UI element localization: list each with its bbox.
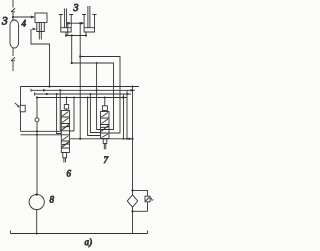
wire: H3 right then down to valve 7 right port [72, 63, 114, 130]
wire: valve 6 right port to riser [70, 98, 75, 132]
svg-text:3: 3 [73, 3, 79, 14]
wire: bottom break line below accumulator [11, 48, 15, 71]
pressure switch box [20, 105, 25, 112]
node: drop junction on upper tie [79, 22, 81, 24]
wire: bracket from L3 down around to valve 6 right [57, 94, 62, 134]
left edge of unit / pressure switch line [20, 87, 22, 106]
valve 6 body [61, 111, 69, 153]
arrowhead on L2 right [131, 89, 135, 92]
node: pump line joins L4 [36, 96, 38, 98]
wire: L3 corner down to drain line [123, 94, 125, 139]
node: drain joins main return [131, 138, 133, 140]
valve 6 pilot cap [64, 105, 68, 110]
node: branch H4 [79, 55, 81, 57]
wire: long drain line from valve 6 to main return [70, 138, 133, 140]
tank line bottom [11, 231, 148, 234]
gauge circle on pump line [35, 118, 39, 122]
arrowhead on L4 right [123, 96, 127, 99]
node: H3 branch [71, 62, 73, 64]
relief valve branch [133, 190, 148, 196]
arrowhead on drain line [129, 138, 133, 141]
arrowhead on L3 right [127, 93, 131, 96]
svg-text:7: 7 [104, 155, 109, 165]
svg-text:6: 6 [67, 169, 72, 179]
wire: V1 from lower tie [71, 36, 73, 64]
pump suction vertical with gauge circle [36, 98, 38, 195]
svg-text:а): а) [85, 237, 93, 247]
wire: to regulator 4 [13, 16, 32, 18]
arrowhead on L2 [43, 89, 47, 92]
bus line L4 [37, 97, 127, 99]
wire: regulator 4 to manifold [31, 29, 50, 87]
wire: between cylinders upper [68, 22, 83, 24]
arrowhead on L3 [46, 93, 50, 96]
arrowhead into regulator 4 lower port [33, 28, 37, 31]
wire: left feed into valve 7 middle port [90, 94, 100, 133]
bus line L1 [21, 86, 140, 88]
valve 7 pilot cap [102, 106, 107, 111]
brake cylinder left [59, 9, 73, 33]
regulator 4 body [35, 13, 47, 40]
svg-text:8: 8 [50, 195, 55, 205]
arrowhead left into left cylinder [66, 22, 70, 25]
valve 7 plunger [103, 139, 107, 150]
svg-text:3: 3 [1, 16, 8, 28]
valve 6 plunger [63, 153, 67, 163]
valve 6 top feed wires [59, 90, 61, 131]
pump 8 circle [29, 194, 44, 209]
arrowhead right into right cylinder [81, 22, 84, 25]
wire: L2 corner down to drain line [126, 90, 128, 139]
arrow into switch [15, 103, 19, 107]
brake cylinder right [82, 6, 96, 32]
wire: left feed into valve 7 lower port [88, 98, 101, 136]
filter (diamond) on return line [131, 189, 133, 191]
wire: left feed into valve 7 upper port [97, 63, 101, 130]
node: junction accumulator tee [12, 16, 14, 18]
node: regulator feed on L1 [48, 85, 50, 87]
accumulator 3 (capsule) [10, 20, 19, 48]
wire: top break line above accumulator [11, 0, 15, 20]
wire: pump to tank line [36, 210, 38, 234]
wire: L1 corner down, main return line right side [132, 86, 134, 88]
wire: second left port line [21, 134, 62, 136]
bus line L3 with start tick [35, 93, 132, 96]
svg-text:4: 4 [22, 19, 27, 29]
wire: H4 right then down to valve 7 right port [80, 57, 120, 134]
wire: inner drop from upper tie [67, 23, 69, 35]
valve 7 body [101, 112, 110, 139]
arrowhead into regulator 4 [31, 16, 35, 19]
wire: stubs under cylinders and lower tie [66, 32, 86, 36]
wire: long vertical from cylinders x80 [79, 23, 81, 139]
wire: below switch down then right into valve 6 left port [21, 112, 62, 132]
node: lower tie junctions [65, 34, 67, 36]
node: crossing pump line [36, 130, 38, 132]
bus line L2 with start tick [31, 89, 135, 92]
